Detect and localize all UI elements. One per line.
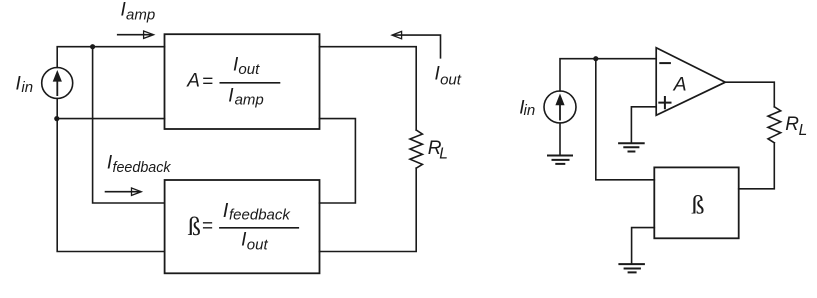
beta box right circuit [654, 167, 738, 238]
arrowhead I_out open [392, 31, 402, 38]
wire op-amp output to RL [725, 82, 774, 107]
svg-text:I: I [228, 86, 234, 107]
ground below source [548, 156, 572, 164]
wire top rail left circuit [57, 47, 164, 68]
wire bottom input to amp box A [57, 118, 165, 120]
current source I_in left [42, 68, 73, 99]
svg-text:R: R [785, 114, 799, 135]
svg-text:=: = [202, 216, 213, 237]
arrowhead I_feedback open [132, 188, 142, 195]
svg-text:I: I [223, 200, 229, 222]
wire I_feedback arrow [106, 191, 141, 193]
svg-text:A: A [673, 74, 687, 96]
wire I_out bent arrow annotation [394, 35, 441, 58]
ground below beta [619, 264, 644, 272]
svg-text:=: = [202, 71, 213, 92]
fraction bar A [220, 82, 279, 84]
fraction bar beta [220, 227, 298, 229]
svg-text:A: A [186, 71, 200, 92]
node input junction top [90, 44, 95, 49]
svg-text:feedback: feedback [113, 160, 172, 176]
arrowhead I_amp open [144, 31, 154, 38]
current source arrow left [53, 70, 62, 96]
ground at plus input [619, 143, 644, 151]
wire beta to ground [632, 228, 655, 265]
wire source to ground [559, 123, 561, 156]
wire A bottom output loop to beta top input [320, 119, 356, 203]
svg-text:in: in [524, 102, 536, 119]
svg-text:feedback: feedback [229, 206, 291, 223]
amp block A box [165, 34, 320, 129]
current source arrow right [555, 94, 564, 121]
resistor RL left [410, 130, 422, 168]
svg-text:L: L [799, 122, 808, 139]
wire source bottom lead [56, 99, 58, 119]
node feedback junction [593, 56, 598, 61]
wire left rail down to beta bottom input [57, 119, 164, 252]
wire top rail right circuit [560, 59, 656, 91]
op-amp plus sign [659, 97, 670, 108]
svg-text:out: out [238, 61, 260, 78]
wire plus input to ground [631, 107, 656, 143]
op-amp U1 [656, 48, 725, 116]
op-amp minus sign [660, 62, 670, 64]
beta block box [165, 180, 320, 273]
wire RL bottom to beta output [320, 168, 417, 251]
svg-text:out: out [247, 236, 269, 253]
svg-text:ß: ß [691, 189, 704, 219]
current source I_in right [544, 91, 576, 123]
wire beta output feedback to input node [596, 59, 655, 180]
wire I_amp arrow [118, 34, 153, 36]
resistor RL right [768, 107, 781, 143]
wire A output top to RL [320, 47, 417, 130]
svg-text:amp: amp [235, 92, 264, 109]
svg-text:ß: ß [188, 211, 201, 241]
svg-text:out: out [440, 72, 462, 89]
svg-text:amp: amp [126, 6, 155, 23]
wire RL bottom to beta box [739, 143, 775, 189]
svg-text:L: L [439, 146, 448, 163]
node bottom junction [54, 116, 59, 121]
svg-text:in: in [21, 79, 33, 96]
wire feedback vertical from top node to beta box [93, 47, 165, 203]
